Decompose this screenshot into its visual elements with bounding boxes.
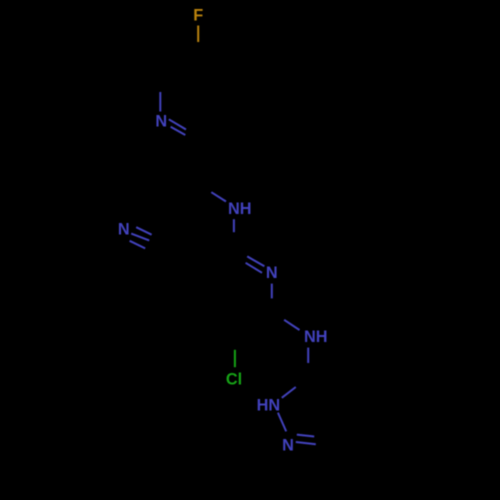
bond C5-F1 (fluorine half) xyxy=(197,26,199,43)
bond NH-C2 pyridine-B (nitrogen half) xyxy=(233,219,235,232)
bond C5-N1 pyrazole (nitrogen half) xyxy=(282,387,296,398)
bond C5-Cl (chlorine half) xyxy=(234,350,236,367)
double bond N1=C2 pyridine-A inner line (nitrogen half) xyxy=(169,119,186,129)
bond C4-N(H) amine (nitrogen half) xyxy=(284,320,299,330)
double bond N2=C3 pyrazole inner line (nitrogen half) xyxy=(297,435,314,437)
svg-text:N: N xyxy=(266,264,278,282)
svg-text:N: N xyxy=(155,113,167,131)
svg-text:NH: NH xyxy=(228,200,252,218)
triple bond C#N bottom line (nitrogen half) xyxy=(130,241,146,249)
double bond C2=N3 pyridine-B main line (nitrogen half) xyxy=(247,256,264,266)
bond NH-C5 pyrazole (nitrogen half) xyxy=(307,348,309,363)
svg-text:NH: NH xyxy=(304,328,328,346)
bond N1-N2 pyrazole (full nitrogen bond) xyxy=(278,413,286,432)
bond N3-C4 pyridine-B (nitrogen half) xyxy=(271,284,273,299)
svg-text:HN: HN xyxy=(257,396,281,414)
triple bond C#N top line (nitrogen half) xyxy=(136,227,151,235)
triple bond C#N middle line (nitrogen half) xyxy=(131,234,149,241)
svg-text:N: N xyxy=(118,221,130,239)
bond CH2-N(H) linker (nitrogen half) xyxy=(211,192,226,201)
double bond N1=C2 pyridine-A main line (nitrogen half) xyxy=(171,127,186,135)
double bond N2=C3 pyrazole main line (nitrogen half) xyxy=(296,442,316,444)
bond N1-C6 pyridine-A (nitrogen half) xyxy=(159,92,161,112)
double bond C2=N3 pyridine-B inner line (nitrogen half) xyxy=(246,263,262,273)
svg-text:F: F xyxy=(193,7,203,25)
svg-text:Cl: Cl xyxy=(226,371,242,389)
svg-text:N: N xyxy=(282,436,294,454)
